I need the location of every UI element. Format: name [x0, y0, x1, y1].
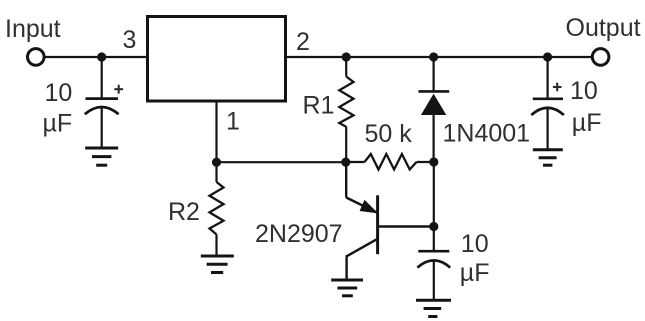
ground R2 — [201, 256, 234, 273]
wire R2 bottom lead — [215, 235, 217, 256]
terminal Output — [592, 49, 609, 66]
node pin1 junction — [212, 158, 221, 167]
wire bottom cap bottom lead — [433, 261, 435, 300]
wire input cap bottom lead — [101, 107, 103, 148]
terminal Input — [28, 49, 45, 66]
node input-cap junction — [97, 52, 106, 61]
node R1 top junction — [342, 52, 351, 61]
resistor R2 — [210, 182, 224, 235]
node output-cap junction — [543, 52, 552, 61]
svg-text:R2: R2 — [168, 198, 200, 226]
svg-text:50 k: 50 k — [365, 120, 413, 148]
svg-text:µF: µF — [43, 109, 73, 137]
wire R2 top lead — [215, 162, 217, 182]
svg-text:µF: µF — [572, 109, 602, 137]
svg-text:Input: Input — [5, 15, 61, 43]
resistor R1 — [339, 77, 353, 127]
wire diode node to base node — [433, 162, 435, 227]
wire output rail — [287, 56, 591, 58]
regulator U1 box — [148, 17, 286, 102]
wire pin1 lead — [215, 101, 217, 162]
node R1 bottom junction — [341, 158, 350, 167]
svg-text:R1: R1 — [303, 92, 335, 120]
wire 50k left lead — [346, 161, 365, 163]
node diode bottom junction — [429, 157, 438, 166]
wire R1 bottom lead — [345, 127, 347, 163]
svg-text:2N2907: 2N2907 — [255, 220, 343, 248]
svg-text:µF: µF — [460, 259, 490, 287]
ground output cap — [533, 150, 563, 165]
transistor Q1 2N2907 — [346, 162, 434, 281]
svg-text:3: 3 — [123, 26, 137, 54]
diode D1 1N4001 — [418, 91, 449, 115]
wire diode top lead — [433, 57, 435, 91]
svg-text:10: 10 — [570, 77, 598, 105]
svg-text:1: 1 — [226, 108, 240, 136]
svg-text:2: 2 — [296, 28, 310, 56]
wire 50k right lead — [417, 161, 435, 163]
plus C2 — [553, 83, 562, 92]
capacitor C1 input 10uF — [85, 99, 119, 115]
wire R1 top lead — [345, 57, 347, 77]
svg-text:Output: Output — [566, 14, 641, 42]
ground bottom cap — [416, 300, 451, 316]
svg-text:10: 10 — [461, 230, 489, 258]
resistor 50k — [365, 154, 417, 170]
ground collector — [331, 280, 363, 296]
svg-text:10: 10 — [45, 79, 73, 107]
wire bottom rail — [217, 161, 346, 163]
wire bottom cap top lead — [433, 227, 435, 252]
capacitor C3 bottom 10uF — [417, 251, 450, 267]
capacitor C2 output 10uF — [531, 99, 564, 115]
ground input cap — [85, 148, 118, 165]
node base junction — [429, 222, 438, 231]
wire input cap top lead — [101, 57, 103, 99]
wire output cap bottom lead — [546, 108, 548, 149]
wire diode bottom lead — [433, 114, 435, 162]
plus C1 — [114, 85, 123, 94]
wire input rail — [46, 56, 147, 58]
svg-text:1N4001: 1N4001 — [443, 120, 531, 148]
node diode top junction — [429, 52, 438, 61]
wire output cap top lead — [546, 57, 548, 99]
